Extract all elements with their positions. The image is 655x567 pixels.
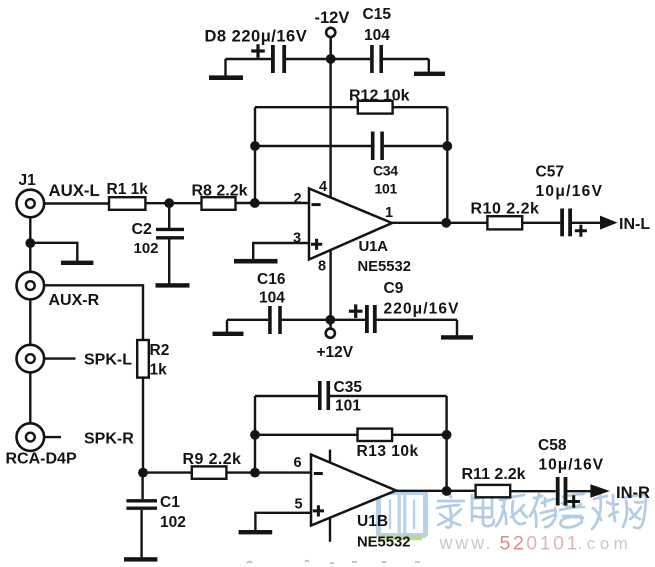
capacitor C35	[320, 381, 329, 410]
junction C34 rail right	[442, 141, 452, 151]
svg-text:R12 10k: R12 10k	[349, 87, 410, 104]
svg-text:IN-L: IN-L	[619, 216, 650, 233]
wire +12V rail	[227, 319, 457, 321]
svg-text:8: 8	[318, 259, 326, 275]
wire C34 rail	[255, 145, 447, 147]
svg-text:R2: R2	[150, 342, 170, 359]
resistor R13	[358, 429, 393, 441]
RCA jack SPK-L	[17, 345, 45, 373]
RCA jack AUX-L	[17, 190, 45, 218]
wire U1B output	[396, 490, 592, 493]
svg-text:R1 1k: R1 1k	[107, 181, 149, 198]
ground (pin3)	[234, 243, 309, 264]
svg-text:104: 104	[364, 27, 390, 44]
capacitor C1 102	[126, 473, 157, 558]
label C2 102	[132, 221, 159, 257]
label C34 101	[373, 163, 398, 197]
capacitor C2	[156, 203, 184, 283]
svg-text:104: 104	[259, 290, 285, 307]
wire U1A output	[392, 222, 602, 224]
resistor R11	[476, 485, 511, 497]
svg-text:C1: C1	[160, 494, 180, 511]
svg-text:NE5532: NE5532	[358, 259, 411, 275]
junction -12V rail	[326, 54, 336, 64]
+12V terminal	[317, 329, 354, 361]
resistor R1	[109, 197, 145, 210]
watermark book logo	[378, 492, 426, 540]
ground (C2)	[156, 283, 190, 287]
svg-text:U1B: U1B	[357, 513, 388, 530]
capacitor C15	[372, 45, 381, 73]
svg-text:2: 2	[294, 191, 302, 207]
capacitor C16 104	[270, 306, 280, 334]
capacitor C57 10u/16V	[562, 209, 587, 237]
svg-text:SPK-L: SPK-L	[84, 352, 132, 369]
resistor R12	[358, 101, 393, 114]
svg-text:D8 220μ/16V: D8 220μ/16V	[205, 28, 308, 46]
svg-text:AUX-L: AUX-L	[49, 181, 100, 200]
svg-text:10μ/16V: 10μ/16V	[536, 183, 604, 200]
capacitor C58 10u/16V	[558, 477, 580, 508]
junction pin2 node	[250, 198, 260, 208]
svg-text:C16: C16	[257, 271, 286, 288]
ground (C1)	[124, 557, 157, 561]
wire U1A feedback top	[255, 107, 447, 223]
resistor R8	[202, 197, 236, 210]
label C15 104	[363, 6, 392, 44]
junction R13 rail right	[442, 430, 452, 440]
RCA jack AUX-R	[17, 272, 45, 300]
ground (right of C9)	[441, 320, 473, 340]
svg-text:U1A: U1A	[359, 238, 389, 255]
svg-text:0101: 0101	[526, 533, 580, 555]
svg-text:J1: J1	[19, 172, 37, 189]
caption remnants bottom edge	[247, 561, 420, 564]
-12V terminal	[315, 9, 350, 37]
wire R1 to R8	[145, 202, 201, 204]
junction +12V rail	[325, 315, 335, 325]
svg-text:1k: 1k	[150, 362, 168, 379]
svg-text:R10 2.2k: R10 2.2k	[471, 200, 540, 217]
ground (left of C16)	[213, 320, 244, 336]
svg-text:.com: .com	[578, 534, 633, 553]
svg-text:+12V: +12V	[317, 344, 354, 361]
svg-text:1: 1	[385, 205, 393, 221]
wire R2 to node	[142, 378, 144, 473]
svg-text:R8 2.2k: R8 2.2k	[192, 183, 248, 200]
wire -12V rail	[226, 58, 429, 60]
svg-text:www: www	[439, 533, 487, 553]
svg-text:102: 102	[134, 240, 159, 257]
junction pin6 node	[250, 468, 260, 478]
svg-text:RCA-D4P: RCA-D4P	[6, 451, 77, 468]
svg-text:NE5532: NE5532	[357, 534, 410, 550]
svg-text:C58: C58	[538, 437, 567, 454]
svg-text:101: 101	[375, 181, 398, 197]
svg-text:AUX-R: AUX-R	[49, 292, 100, 309]
wire U1B feedback	[255, 396, 447, 491]
svg-text:6: 6	[294, 455, 302, 471]
junction U1B output	[442, 486, 452, 496]
op-amp U1B	[311, 450, 396, 542]
capacitor C34	[373, 132, 382, 161]
wire supply vertical through U1A	[329, 37, 331, 328]
svg-text:4: 4	[319, 179, 327, 195]
wire node to R9	[143, 471, 255, 473]
svg-text:C34: C34	[373, 163, 398, 179]
resistor R10	[487, 216, 522, 229]
wire SPK-R stub	[44, 436, 61, 438]
svg-text:C15: C15	[363, 6, 392, 23]
svg-text:C35: C35	[334, 379, 363, 396]
op-amp U1A	[309, 189, 392, 260]
svg-text:C57: C57	[536, 164, 564, 181]
junction R13 rail left	[250, 430, 260, 440]
svg-text:5: 5	[295, 496, 303, 512]
ground (pin5)	[239, 513, 311, 535]
svg-text:R9 2.2k: R9 2.2k	[183, 451, 242, 468]
watermark text 家电维修资料网	[437, 492, 646, 529]
watermark url www.520101.com	[439, 533, 633, 555]
ground (left of D8)	[209, 59, 243, 80]
arrow IN-L	[600, 216, 618, 230]
resistor R9	[192, 466, 227, 478]
junction C34 rail left	[250, 141, 260, 151]
junction U1A output	[441, 218, 451, 228]
wire pin6	[255, 471, 311, 473]
resistor R2	[137, 340, 149, 378]
svg-text:.: .	[486, 533, 491, 553]
svg-text:C2: C2	[132, 221, 153, 238]
wire SPK-L stub	[44, 357, 75, 359]
wire -12V stub	[330, 37, 332, 59]
wire R8 to pin2	[236, 202, 310, 204]
svg-text:101: 101	[335, 397, 361, 414]
arrow IN-R	[590, 484, 609, 498]
capacitor D8 220u/16V	[251, 44, 284, 73]
ground (right of C15)	[414, 59, 445, 76]
junction input common	[25, 238, 35, 248]
svg-text:R13 10k: R13 10k	[357, 443, 419, 460]
wire AUX-R to R2 branch	[44, 285, 143, 340]
wire R13 rail	[255, 434, 447, 436]
svg-text:SPK-R: SPK-R	[84, 431, 134, 448]
ground (input common)	[30, 243, 93, 265]
svg-text:10μ/16V: 10μ/16V	[539, 456, 605, 473]
junction C2 node	[164, 198, 174, 208]
svg-text:102: 102	[160, 514, 186, 531]
junction R9/C1 node	[138, 468, 148, 478]
svg-text:-12V: -12V	[315, 9, 350, 27]
svg-text:R11 2.2k: R11 2.2k	[462, 466, 526, 483]
capacitor C9 220u/16V	[349, 304, 375, 333]
svg-text:IN-R: IN-R	[616, 484, 650, 502]
svg-text:220μ/16V: 220μ/16V	[384, 301, 460, 318]
svg-text:C9: C9	[384, 280, 404, 297]
svg-text:52: 52	[500, 533, 527, 555]
wire jack column	[29, 217, 31, 423]
RCA jack SPK-R	[17, 423, 45, 451]
wire AUX-L to R1	[44, 202, 109, 204]
